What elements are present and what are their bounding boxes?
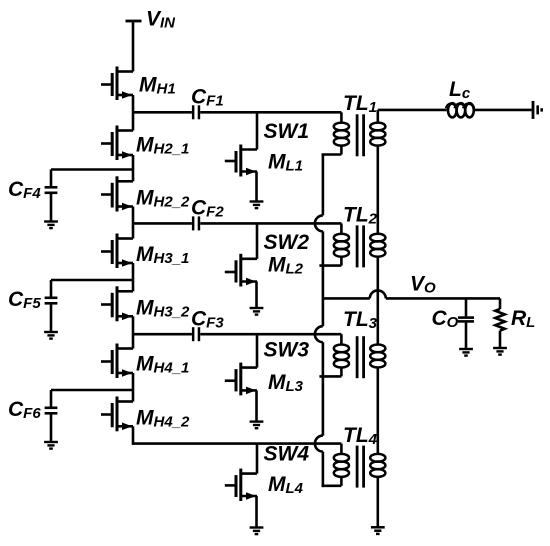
wire TL4 primary bottom to rail xyxy=(322,484,342,487)
wire ML2 source to ground xyxy=(255,282,258,309)
transformer TL3 primary winding xyxy=(334,345,349,368)
wire CF5 top lead xyxy=(50,280,53,298)
ground CO xyxy=(459,349,473,356)
wire RL bottom lead xyxy=(499,331,502,348)
transistor ML2 xyxy=(225,254,257,287)
capacitor CF2 xyxy=(193,216,199,230)
wire RL top lead xyxy=(499,298,502,309)
ground ML2 xyxy=(250,308,264,315)
wire VO from rail xyxy=(323,297,370,300)
transformer TL4 primary top lead xyxy=(340,444,343,455)
transformer TL2 core xyxy=(356,225,359,267)
wire TL1 secondary to Lc xyxy=(378,109,447,112)
wire TL2 primary bottom to rail xyxy=(319,264,341,267)
transformer TL2 primary bottom lead xyxy=(340,256,343,266)
wire row2 to ML2 drain xyxy=(256,223,259,258)
VIN terminal xyxy=(126,20,142,23)
wire MH3_2 to node3 xyxy=(132,316,135,348)
wire row3 to ML3 drain xyxy=(256,334,259,367)
wire ML3 source to ground xyxy=(255,390,258,421)
ground ML4 xyxy=(250,528,264,535)
wire ML4 source to ground xyxy=(255,496,258,528)
capacitor CF4 xyxy=(45,187,58,193)
wire CF6 top lead xyxy=(50,390,53,408)
transformer TL2 primary top lead xyxy=(340,223,343,234)
wire MH3_1 to MH3_2 xyxy=(132,263,135,291)
transformer TL4 core xyxy=(356,446,359,488)
transformer TL1 secondary winding xyxy=(370,123,385,146)
wire hop over SW3 row xyxy=(315,326,323,342)
wire hop over SW4 row xyxy=(315,436,323,452)
wire TL3-TL4 secondary xyxy=(376,367,379,455)
transistor ML3 xyxy=(225,363,257,396)
capacitor CO xyxy=(458,318,474,322)
transistor MH2_1 xyxy=(101,126,133,161)
wire rail TL2-TL3 xyxy=(322,231,325,326)
wire CF4 top lead xyxy=(50,170,53,188)
svg-text:SW1: SW1 xyxy=(264,120,310,143)
transistor MH2_2 xyxy=(101,176,133,211)
ground CF6 xyxy=(44,442,58,449)
wire CF4 bottom lead xyxy=(50,193,53,222)
wire ML1 source to ground xyxy=(255,172,258,202)
transistor MH4_1 xyxy=(101,344,133,379)
wire TL1 primary bottom to rail xyxy=(322,153,342,156)
wire row4 node SW4 xyxy=(133,442,341,445)
wire TL1-TL2 secondary xyxy=(376,145,379,235)
ground ML1 xyxy=(250,202,264,209)
transformer TL4 primary bottom lead xyxy=(340,476,343,486)
transformer TL1 primary bottom lead xyxy=(340,145,343,155)
wire CO bottom lead xyxy=(465,323,468,350)
resistor RL xyxy=(495,309,504,331)
transformer TL2 secondary winding xyxy=(370,234,385,257)
ground output port (rotated) xyxy=(532,101,535,119)
wire row1 left xyxy=(133,111,192,114)
wire TL3 primary bottom to rail xyxy=(319,375,341,378)
capacitor CF3 xyxy=(193,327,199,341)
wire CF5 bottom lead xyxy=(50,303,53,332)
wire MH2_2 to node2 xyxy=(132,207,135,239)
wire row2 left xyxy=(133,222,192,225)
transformer TL3 secondary winding xyxy=(370,345,385,368)
ground RL xyxy=(493,348,507,355)
transformer TL1 primary top lead xyxy=(340,112,343,123)
ground CF5 xyxy=(44,332,58,339)
svg-text:SW4: SW4 xyxy=(264,443,310,466)
ground CF4 xyxy=(44,222,58,229)
capacitor CF6 xyxy=(45,408,58,414)
svg-text:SW2: SW2 xyxy=(264,231,310,254)
wire MH2_1 to MH2_2 xyxy=(132,155,135,181)
wire MH1 source to node1 xyxy=(132,95,135,131)
transformer TL2 primary winding xyxy=(334,234,349,257)
transformer TL3 primary bottom lead xyxy=(340,367,343,377)
wire CF6 bottom lead xyxy=(50,413,53,442)
wire MH4_1 to MH4_2 xyxy=(132,373,135,402)
transistor ML4 xyxy=(225,469,257,501)
transistor MH3_2 xyxy=(101,286,133,321)
ground ML3 xyxy=(250,422,264,429)
capacitor CF5 xyxy=(45,298,58,304)
wire VO hop over secondary xyxy=(370,290,386,298)
wire node to CF6 xyxy=(51,389,133,392)
wire row1 to ML1 drain xyxy=(256,112,259,149)
capacitor CF1 xyxy=(193,105,199,119)
transformer TL3 primary top lead xyxy=(340,334,343,345)
wire row4 to ML4 drain xyxy=(256,444,259,474)
wire TL4 secondary to ground xyxy=(376,476,379,527)
transformer TL4 secondary winding xyxy=(370,454,385,477)
wire MH4_2 to node4 xyxy=(132,426,135,445)
wire rail to TL4 primary bottom xyxy=(322,452,325,488)
svg-text:SW3: SW3 xyxy=(264,339,310,362)
wire TL2-TL3 secondary xyxy=(376,256,379,345)
transformer TL1 core xyxy=(356,114,359,156)
wire rail TL1-TL2 xyxy=(322,155,325,216)
wire TL1 secondary top xyxy=(376,110,379,123)
wire row2 right xyxy=(200,222,341,225)
wire Lc to output port xyxy=(475,109,532,112)
wire node to CF5 xyxy=(51,279,133,282)
wire hop over SW2 row xyxy=(315,215,323,231)
transistor ML1 xyxy=(225,145,257,177)
inductor Lc xyxy=(446,103,474,117)
ground secondary chain xyxy=(371,527,385,534)
transistor MH1 xyxy=(101,67,133,101)
transformer TL1 primary winding xyxy=(334,123,349,146)
transformer TL4 primary winding xyxy=(334,454,349,477)
transistor MH3_1 xyxy=(101,234,133,269)
wire row3 right xyxy=(200,333,341,336)
wire row1 right xyxy=(200,111,341,114)
wire row3 left xyxy=(133,333,192,336)
wire CO top lead xyxy=(465,298,468,316)
wire VO to RL xyxy=(386,297,500,300)
transistor MH4_2 xyxy=(101,397,133,432)
wire VIN to MH1 drain xyxy=(132,21,135,72)
wire node to CF4 xyxy=(51,168,133,171)
wire rail TL3-TL4 xyxy=(322,342,325,435)
transformer TL3 core xyxy=(356,336,359,378)
